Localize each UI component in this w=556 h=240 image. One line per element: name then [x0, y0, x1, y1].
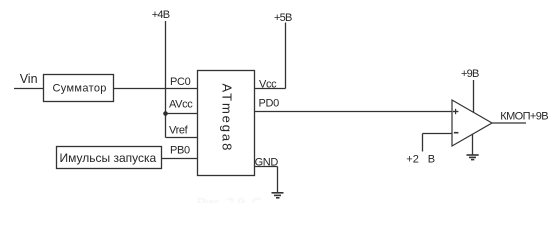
wire PB0 pin — [162, 158, 198, 160]
wire op-amp ground lead — [472, 134, 474, 155]
block Имульсы запуска (start pulses) — [57, 147, 162, 169]
wire +5В supply vertical — [285, 23, 287, 89]
svg-text:В: В — [428, 154, 435, 166]
wire Vin input — [14, 88, 44, 90]
wire +9В supply to op-amp — [473, 80, 475, 113]
svg-text:+4В: +4В — [152, 9, 170, 21]
svg-text:+2: +2 — [406, 154, 419, 166]
wire GND pin — [255, 166, 278, 168]
svg-text:Vin: Vin — [20, 72, 38, 86]
op-amp plus input sign — [453, 109, 459, 114]
svg-text:Имульсы запуска: Имульсы запуска — [60, 151, 157, 165]
svg-text:PB0: PB0 — [170, 144, 190, 156]
svg-text:Сумматор: Сумматор — [53, 82, 107, 94]
wire Vref pin — [166, 137, 198, 139]
wire op-amp output — [492, 122, 526, 124]
junction dot AVcc / +4В — [163, 111, 168, 116]
block Сумматор (summator) — [44, 75, 114, 102]
svg-text:AVcc: AVcc — [169, 98, 193, 110]
wire Сумматор output to PC0 — [114, 88, 198, 90]
wire +4В supply vertical — [165, 21, 167, 138]
IC ATmega8 body — [198, 71, 255, 176]
wire PD0 to comparator + input — [255, 111, 453, 113]
faint cropped caption artifact at bottom — [197, 195, 261, 210]
svg-text:КМОП+9В: КМОП+9В — [500, 111, 548, 123]
op-amp minus input sign — [454, 132, 459, 134]
svg-text:PD0: PD0 — [259, 97, 280, 109]
wire +2 В to inverting input — [423, 134, 453, 152]
svg-text:Vref: Vref — [169, 124, 189, 136]
ground symbol at GND pin — [272, 167, 284, 198]
svg-text:GND: GND — [255, 156, 279, 168]
wire AVcc pin — [166, 113, 198, 115]
op-amp comparator U1 triangle — [452, 100, 492, 146]
svg-text:PC0: PC0 — [170, 76, 191, 88]
svg-text:+9В: +9В — [461, 68, 479, 80]
ground symbol below op-amp — [467, 155, 479, 160]
svg-text:Рис. 2.9. С: Рис. 2.9. С — [197, 195, 261, 203]
wire Vcc pin — [255, 88, 286, 90]
svg-text:+5В: +5В — [274, 12, 292, 24]
svg-text:Vcc: Vcc — [259, 78, 277, 90]
svg-text:ATmega8: ATmega8 — [220, 84, 235, 153]
